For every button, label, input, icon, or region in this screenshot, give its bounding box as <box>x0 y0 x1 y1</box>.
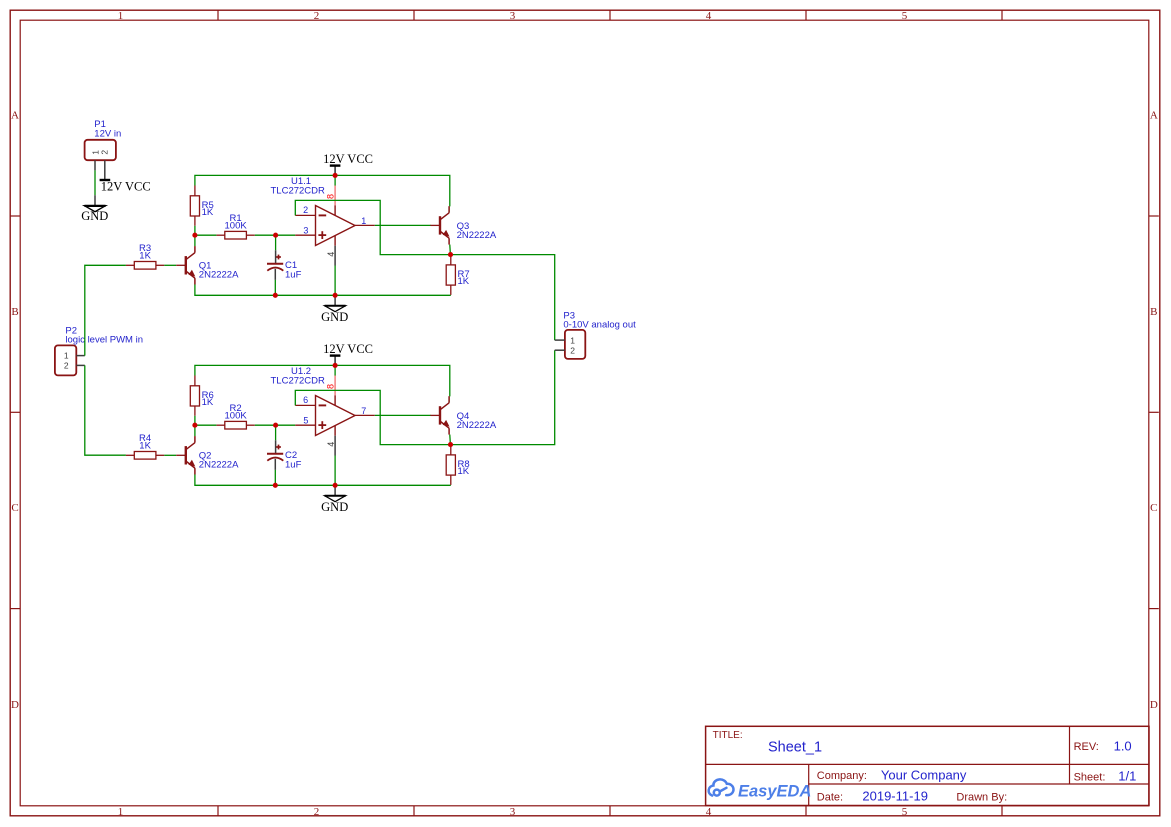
node collector junction <box>192 233 197 238</box>
svg-text:1: 1 <box>118 10 124 22</box>
svg-text:5: 5 <box>902 10 908 22</box>
svg-text:1K: 1K <box>458 466 470 477</box>
connector P1 <box>85 119 122 180</box>
connector P2 <box>55 325 143 375</box>
wire R to op-amp + <box>255 234 295 236</box>
wire cap top <box>275 425 277 440</box>
capacitor C1 <box>267 250 302 280</box>
svg-text:5: 5 <box>303 416 308 426</box>
wire VCC rail <box>195 365 450 396</box>
svg-text:12V VCC: 12V VCC <box>323 342 373 356</box>
svg-text:2019-11-19: 2019-11-19 <box>862 789 928 804</box>
svg-text:2: 2 <box>570 345 575 355</box>
svg-text:6: 6 <box>303 395 308 405</box>
wire collector to rail <box>449 206 451 212</box>
svg-text:1K: 1K <box>139 441 151 452</box>
wire VCC rail <box>195 175 450 206</box>
svg-text:TLC272CDR: TLC272CDR <box>271 185 326 196</box>
svg-text:5: 5 <box>902 806 908 818</box>
wire emitter to output node <box>449 435 452 445</box>
wire emitter to output node <box>449 245 452 255</box>
resistor R7 <box>446 255 470 295</box>
wire ch2 output to P3 <box>451 350 555 444</box>
transistor Q4 <box>430 396 496 434</box>
node gnd rail junction <box>333 483 338 488</box>
svg-text:C: C <box>11 502 18 514</box>
svg-text:Date:: Date: <box>817 791 843 803</box>
wire VCC to op-amp pin8 <box>334 365 336 375</box>
capacitor C2 <box>267 440 302 470</box>
svg-text:100K: 100K <box>225 221 248 232</box>
svg-text:GND: GND <box>321 500 348 514</box>
power flag 12V VCC <box>323 152 373 176</box>
svg-text:12V in: 12V in <box>94 129 121 140</box>
svg-text:8: 8 <box>325 194 335 199</box>
node gnd rail junction <box>333 293 338 298</box>
transistor Q1 <box>176 246 239 284</box>
svg-text:1: 1 <box>361 216 366 226</box>
node emitter output junction <box>448 442 453 447</box>
wire P1 pin1 to GND <box>94 170 96 195</box>
wire cap bottom <box>274 470 276 485</box>
node input cap junction <box>273 233 278 238</box>
svg-text:1K: 1K <box>202 207 214 218</box>
EasyEDA logo <box>709 779 812 800</box>
svg-text:100K: 100K <box>225 411 248 422</box>
wire feedback <box>295 390 451 444</box>
svg-text:A: A <box>1150 110 1158 122</box>
op-amp U1.2 <box>271 366 375 456</box>
svg-text:1uF: 1uF <box>285 270 302 281</box>
node collector junction <box>192 423 197 428</box>
svg-text:12V VCC: 12V VCC <box>323 152 373 166</box>
wire op-amp pin4 to GND rail <box>334 456 336 486</box>
svg-text:TLC272CDR: TLC272CDR <box>271 375 326 386</box>
ground <box>321 485 348 514</box>
svg-text:2: 2 <box>64 360 69 370</box>
node cap-gnd junction <box>273 293 278 298</box>
resistor R2 <box>216 403 254 429</box>
svg-text:D: D <box>11 699 19 711</box>
svg-text:C: C <box>1150 502 1157 514</box>
svg-text:Your Company: Your Company <box>881 767 967 782</box>
resistor R3 <box>126 243 164 269</box>
wire R to base <box>164 264 176 266</box>
resistor R6 <box>190 376 214 416</box>
svg-text:4: 4 <box>326 442 336 447</box>
svg-text:4: 4 <box>326 252 336 257</box>
wire junction to R <box>195 234 217 236</box>
power flag 12V VCC <box>323 342 373 366</box>
svg-text:4: 4 <box>706 806 712 818</box>
node cap-gnd junction <box>273 483 278 488</box>
node emitter output junction <box>448 252 453 257</box>
svg-text:B: B <box>11 306 18 318</box>
svg-text:A: A <box>11 110 19 122</box>
wire op-amp output to base <box>375 414 431 416</box>
wire emitter to GND rail <box>195 475 451 486</box>
svg-text:12V VCC: 12V VCC <box>101 180 151 194</box>
svg-text:0-10V analog out: 0-10V analog out <box>563 319 636 330</box>
svg-text:1: 1 <box>570 335 575 345</box>
wire P2 pin1 to R3 <box>85 265 126 355</box>
svg-text:1K: 1K <box>202 397 214 408</box>
svg-text:TITLE:: TITLE: <box>713 730 743 741</box>
svg-text:1uF: 1uF <box>285 460 302 471</box>
wire op-amp output to base <box>375 224 431 226</box>
svg-text:3: 3 <box>303 226 308 236</box>
svg-text:8: 8 <box>325 384 335 389</box>
svg-text:2N2222A: 2N2222A <box>457 420 497 431</box>
op-amp U1.1 <box>271 176 375 266</box>
title block <box>706 726 1149 805</box>
svg-text:B: B <box>1150 306 1157 318</box>
svg-text:1: 1 <box>118 806 124 818</box>
svg-text:Sheet_1: Sheet_1 <box>768 740 822 756</box>
svg-text:EasyEDA: EasyEDA <box>738 783 811 801</box>
wire op-amp pin4 to GND rail <box>334 266 336 296</box>
svg-text:GND: GND <box>81 209 108 223</box>
wire P2 pin2 to R4 <box>85 365 126 455</box>
ground at P1 <box>81 195 108 223</box>
wire R-collector node <box>194 416 196 436</box>
resistor R5 <box>190 186 214 226</box>
wire VCC to op-amp pin8 <box>334 175 336 185</box>
svg-text:Company:: Company: <box>817 770 867 782</box>
svg-text:logic level PWM in: logic level PWM in <box>65 335 143 346</box>
svg-text:3: 3 <box>510 10 516 22</box>
transistor Q2 <box>176 436 239 474</box>
wire R to base <box>164 454 176 456</box>
wire R to op-amp + <box>255 424 295 426</box>
svg-text:2N2222A: 2N2222A <box>199 460 239 471</box>
svg-text:2: 2 <box>314 806 320 818</box>
svg-text:REV:: REV: <box>1074 741 1099 753</box>
connector P3 <box>555 310 636 359</box>
svg-text:1K: 1K <box>458 276 470 287</box>
wire junction to R <box>195 424 217 426</box>
resistor R4 <box>126 433 164 459</box>
wire emitter to GND rail <box>195 285 451 296</box>
svg-text:Drawn By:: Drawn By: <box>956 791 1007 803</box>
svg-text:D: D <box>1150 699 1158 711</box>
svg-text:2N2222A: 2N2222A <box>199 270 239 281</box>
transistor Q3 <box>430 206 496 244</box>
node input cap junction <box>273 423 278 428</box>
svg-text:1: 1 <box>64 351 69 361</box>
node VCC rail junction <box>333 363 338 368</box>
resistor R8 <box>446 445 470 485</box>
svg-text:2: 2 <box>314 10 320 22</box>
svg-text:GND: GND <box>321 310 348 324</box>
svg-text:1.0: 1.0 <box>1114 738 1132 753</box>
wire cap bottom <box>274 280 276 295</box>
svg-text:2: 2 <box>303 205 308 215</box>
wire collector to rail <box>449 396 451 402</box>
svg-text:7: 7 <box>361 406 366 416</box>
resistor R1 <box>216 213 254 239</box>
wire feedback <box>295 200 451 254</box>
svg-text:Sheet:: Sheet: <box>1074 771 1106 783</box>
wire cap top <box>275 235 277 250</box>
svg-text:2: 2 <box>100 150 110 155</box>
svg-text:3: 3 <box>510 806 516 818</box>
ground <box>321 295 348 324</box>
svg-text:1/1: 1/1 <box>1118 769 1136 784</box>
svg-text:2N2222A: 2N2222A <box>457 230 497 241</box>
wire ch1 output to P3 <box>451 255 555 341</box>
svg-text:4: 4 <box>706 10 712 22</box>
wire R-collector node <box>194 226 196 246</box>
power flag 12V VCC at P1 <box>100 180 151 194</box>
node VCC rail junction <box>333 173 338 178</box>
svg-text:1K: 1K <box>139 251 151 262</box>
